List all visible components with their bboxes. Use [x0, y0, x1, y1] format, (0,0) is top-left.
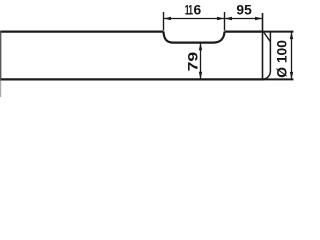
svg-text:Ø 100: Ø 100	[275, 40, 290, 78]
top extension line to diameter dimension	[263, 31, 294, 33]
chamfer edge circle line at end	[262, 13, 264, 79]
tool body top edge left segment	[0, 31, 164, 33]
svg-text:79: 79	[186, 52, 201, 72]
arrowhead 79 bottom	[199, 72, 202, 80]
tool body left edge	[0, 31, 2, 81]
retainer groove contour	[164, 32, 225, 43]
faint leftover line bottom left	[0, 81, 2, 98]
extension line between 116 and 95 dimensions	[224, 12, 226, 30]
arrowhead diameter top	[290, 32, 293, 39]
svg-text:95: 95	[236, 3, 252, 18]
tool body top edge right segment	[225, 31, 263, 33]
arrowhead 95 left	[225, 17, 233, 20]
dimension line 79	[200, 43, 202, 79]
arrowhead diameter bottom	[290, 72, 293, 80]
end face with rounded bottom corner	[263, 32, 271, 80]
dimension line diameter 100	[291, 32, 293, 80]
dimension line 116	[164, 18, 225, 20]
arrowhead 116 right	[217, 17, 225, 20]
arrowhead 79 top	[199, 43, 202, 51]
dimension line 95	[225, 18, 263, 20]
dimension text 116	[185, 3, 202, 19]
arrowhead 95 right	[255, 17, 263, 20]
arrowhead 116 left	[164, 17, 172, 20]
svg-text:6: 6	[193, 3, 201, 18]
bottom extension line to diameter dimension	[265, 78, 294, 80]
extension line left of 116 dimension	[163, 12, 165, 30]
tool body bottom edge	[0, 78, 265, 80]
chamfer diagonal (tapered wedge)	[262, 32, 270, 42]
